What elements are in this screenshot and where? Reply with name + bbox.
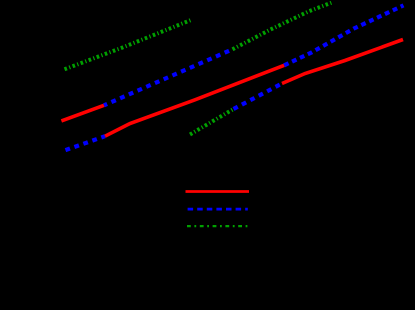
- curve C4 red solid segment: [282, 40, 403, 84]
- curve C4 green dash-dot segment (start): [190, 109, 234, 135]
- curve C3 blue dashed segment (start): [63, 136, 105, 151]
- curve C1 green dash-dot (top-left): [65, 20, 192, 69]
- curve C2 blue dashed segment: [104, 49, 233, 105]
- curve C4 blue dashed segment: [234, 84, 283, 110]
- curve C2 green dash-dot segment: [233, 3, 333, 50]
- curve C3 blue dashed segment (end): [284, 5, 403, 65]
- curve C3 red solid segment: [105, 65, 284, 136]
- legend blue dashed sample: [188, 208, 248, 211]
- legend red solid sample: [186, 190, 250, 193]
- legend green dash-dot sample: [187, 225, 248, 227]
- curve C2 red solid segment: [61, 105, 104, 121]
